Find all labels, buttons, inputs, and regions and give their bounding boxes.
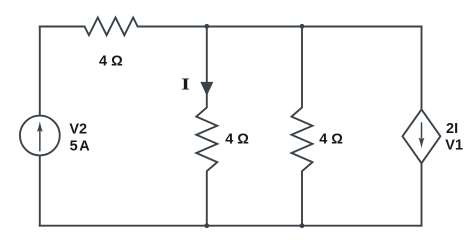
- svg-text:2I: 2I: [446, 121, 458, 137]
- svg-text:V2: V2: [69, 121, 87, 137]
- svg-text:I: I: [181, 75, 190, 94]
- svg-text:V1: V1: [445, 138, 463, 154]
- svg-text:A: A: [79, 138, 90, 154]
- svg-text:5: 5: [70, 138, 78, 154]
- svg-text:4 Ω: 4 Ω: [99, 53, 123, 69]
- svg-text:4 Ω: 4 Ω: [319, 132, 343, 148]
- svg-text:4 Ω: 4 Ω: [225, 132, 249, 148]
